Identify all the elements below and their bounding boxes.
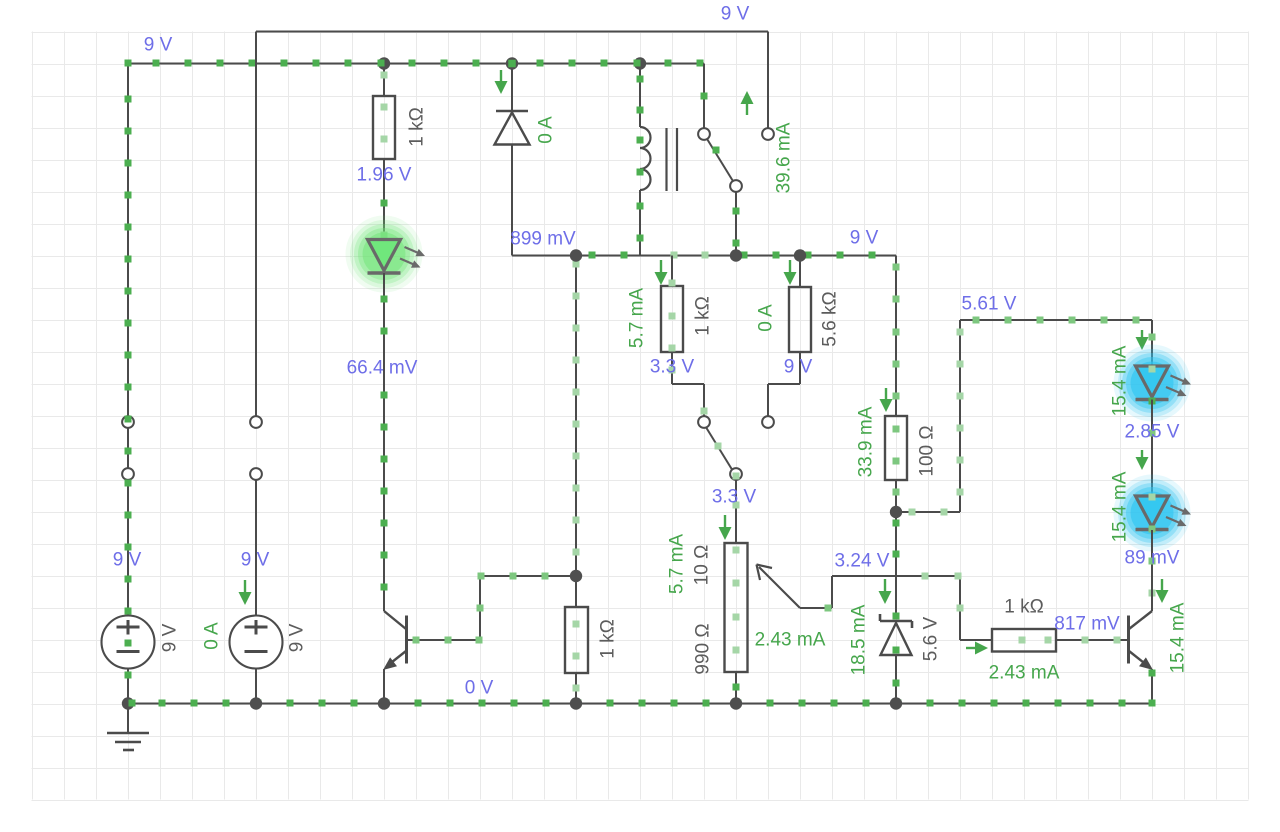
switch S1 (closed) in V1 branch: [122, 416, 134, 481]
junction (384,704): [378, 697, 390, 709]
junction (512,64): [506, 57, 518, 69]
value R4 1kΩ: [598, 619, 619, 659]
relay K1 core: [667, 128, 678, 191]
wire: diode bottom to node 899mV (512,256)-(576,256): [512, 255, 576, 257]
value R6 100Ω: [917, 425, 938, 476]
label 1.96V: [357, 165, 412, 186]
resistor R3 5.6 kΩ (vertical at x=800): [789, 256, 811, 353]
wire: between LEDs (2.85V net): [1149, 400, 1156, 497]
svg-text:10 Ω: 10 Ω: [692, 545, 713, 586]
relay K1 coil (x=640): [637, 64, 651, 256]
svg-text:2.85 V: 2.85 V: [1125, 422, 1180, 443]
label 817mV: [1054, 614, 1120, 635]
wire: LED D4 to Q2 collector (89 mV net): [1149, 530, 1156, 597]
switch S3 (SPDT, selecting left throw): [698, 416, 774, 480]
wire: LED D2 to Q1 collector (66.4 mV net): [381, 273, 388, 611]
label 89mV: [1125, 548, 1180, 569]
label 18.5mA: [849, 604, 870, 675]
label 2.85V: [1125, 422, 1180, 443]
svg-text:9 V: 9 V: [113, 550, 142, 571]
svg-text:9 V: 9 V: [850, 228, 879, 249]
value R5 1kΩ: [1004, 597, 1044, 618]
wire: Q1 base path to node (576,576): [407, 573, 577, 644]
wire: top net 9V (256,31)-(768,31) with drop to relay throw B: [256, 32, 768, 129]
current arrow 0 A at R3: [784, 260, 797, 285]
label 899mV: [510, 229, 576, 250]
wire: V1 upper lead: [125, 480, 132, 617]
svg-text:18.5 mA: 18.5 mA: [849, 604, 870, 675]
current arrow 0 A at switch S2: [239, 580, 252, 605]
value V1 9V: [160, 623, 181, 652]
current arrow 39.6 mA at relay switch: [741, 91, 754, 115]
svg-text:3.3 V: 3.3 V: [712, 487, 757, 508]
junction (576,256): [570, 249, 582, 261]
svg-text:5.61 V: 5.61 V: [962, 294, 1017, 315]
label 5.61V: [962, 294, 1017, 315]
wire: mid rail 9V (576,256)-(896,256): [576, 252, 896, 259]
svg-text:5.7 mA: 5.7 mA: [667, 534, 688, 595]
label 5.7mA at VR1: [667, 534, 688, 595]
wire: battery V2 branch x=256 (crosses rail, no junction): [255, 32, 257, 704]
label 2.43mA at VR1: [755, 630, 826, 651]
junction (128,704): [122, 697, 134, 709]
battery V2 (9 V): [230, 616, 283, 669]
svg-text:15.4 mA: 15.4 mA: [1168, 602, 1189, 673]
svg-text:0 A: 0 A: [536, 116, 557, 144]
wire: R2 to switch S3 throw A: [669, 352, 708, 416]
transistor Q2 (NPN, base left): [1129, 576, 1156, 704]
label 9V top: [721, 4, 750, 25]
wire: V1 lower lead: [125, 668, 132, 704]
resistor R5 1 kΩ (horizontal at y=640): [992, 629, 1127, 652]
label 15.4mA at Q2: [1168, 602, 1189, 673]
LED D3 (blue, lit): [1114, 345, 1192, 422]
svg-text:3.3 V: 3.3 V: [650, 357, 695, 378]
junction (256,704): [250, 697, 262, 709]
current arrow 0 A at diode D1: [495, 70, 508, 94]
svg-text:0 A: 0 A: [756, 304, 777, 332]
svg-text:100 Ω: 100 Ω: [917, 425, 938, 476]
svg-text:1 kΩ: 1 kΩ: [1004, 597, 1044, 618]
wire: x=576 vertical (899mV net to Q1 base node): [573, 256, 580, 577]
ground: [107, 704, 149, 751]
label 0V: [465, 678, 494, 699]
svg-text:9 V: 9 V: [721, 4, 750, 25]
svg-text:0 A: 0 A: [202, 622, 223, 650]
junction (896,512): [890, 506, 902, 518]
resistor R1 1 kΩ (vertical at x=384): [373, 64, 395, 160]
transistor Q1 (NPN, mirrored, base right): [383, 611, 407, 704]
junction (384,64): [378, 57, 390, 69]
wire: R1 to LED D2: [381, 159, 388, 240]
junction (576,576): [570, 570, 582, 582]
wire: LED chain drop x=1152: [1149, 320, 1156, 366]
current arrow 5.7 mA at potentiometer: [719, 515, 732, 540]
svg-text:3.24 V: 3.24 V: [835, 551, 890, 572]
svg-text:9 V: 9 V: [241, 550, 270, 571]
current arrow 5.7 mA at R2: [655, 260, 668, 285]
current arrow 15.4 mA at Q2 emitter: [1156, 579, 1169, 603]
svg-text:9 V: 9 V: [160, 623, 181, 652]
svg-text:9 V: 9 V: [144, 35, 173, 56]
label 9V at V2: [241, 550, 270, 571]
svg-text:1 kΩ: 1 kΩ: [693, 296, 714, 336]
label 33.9mA: [856, 406, 877, 477]
svg-text:66.4 mV: 66.4 mV: [347, 358, 418, 379]
label 0A at D1: [536, 116, 557, 144]
switch S2 (open) in V2 branch: [250, 416, 262, 480]
wire: wiper net 3.24V to R5 and Q2 base: [800, 573, 992, 641]
svg-text:9 V: 9 V: [784, 357, 813, 378]
svg-text:9 V: 9 V: [287, 623, 308, 652]
wire: 9V rail to R6 100Ω (x=896): [893, 256, 900, 417]
svg-text:5.6 kΩ: 5.6 kΩ: [820, 291, 841, 346]
wire: node 5.61V (896,512)-(960,512)-(960,320)-(1152,320): [896, 317, 1152, 516]
wire: left branch x=128 from rail to switch S1: [125, 60, 132, 417]
label 15.4mA at D3: [1110, 345, 1131, 416]
svg-text:39.6 mA: 39.6 mA: [774, 122, 795, 193]
battery V1 (9 V): [102, 616, 155, 669]
wire: R3 to switch S3 throw B: [768, 352, 800, 416]
label 5.7mA at R2: [627, 288, 648, 349]
value R2 1kΩ: [693, 296, 714, 336]
junction (736,256): [730, 249, 742, 261]
svg-text:817 mV: 817 mV: [1054, 614, 1120, 635]
svg-text:1 kΩ: 1 kΩ: [598, 619, 619, 659]
svg-text:1 kΩ: 1 kΩ: [407, 107, 428, 147]
junction (736,704): [730, 697, 742, 709]
label 3.3V: [650, 357, 695, 378]
svg-text:15.4 mA: 15.4 mA: [1110, 471, 1131, 542]
junction (800,256): [794, 249, 806, 261]
svg-text:2.43 mA: 2.43 mA: [755, 630, 826, 651]
svg-text:990 Ω: 990 Ω: [693, 623, 714, 674]
junction (640,64): [634, 57, 646, 69]
value VR1 990Ω: [693, 623, 714, 674]
svg-text:89 mV: 89 mV: [1125, 548, 1180, 569]
label 9V top-left: [144, 35, 173, 56]
label 9V at V1: [113, 550, 142, 571]
label 39.6mA: [774, 122, 795, 193]
svg-text:5.7 mA: 5.7 mA: [627, 288, 648, 349]
value R3 5.6kΩ: [820, 291, 841, 346]
value VR1 10Ω: [692, 545, 713, 586]
wire: current dots over junctions: [129, 60, 641, 707]
svg-text:1.96 V: 1.96 V: [357, 165, 412, 186]
svg-text:33.9 mA: 33.9 mA: [856, 406, 877, 477]
resistor R4 1 kΩ (vertical at x=576): [565, 576, 588, 704]
label 15.4mA at D4: [1110, 471, 1131, 542]
current arrow 15.4 mA at LED D4: [1136, 450, 1149, 470]
current arrow 2.43 mA at R5: [966, 642, 988, 655]
label 2.43mA at R5: [989, 663, 1060, 684]
label 9V mid-rail: [850, 228, 879, 249]
current arrow 15.4 mA at LED D3: [1136, 330, 1149, 350]
svg-text:15.4 mA: 15.4 mA: [1110, 345, 1131, 416]
potentiometer VR1 (10Ω / 990Ω): [725, 512, 801, 704]
resistor R6 100 Ω (vertical at x=896): [885, 416, 907, 512]
current arrow 33.9 mA at R6: [880, 388, 893, 412]
wire: top rail 9V (128,64)-(704,64): [127, 60, 704, 67]
svg-text:899 mV: 899 mV: [510, 229, 576, 250]
relay K1 switch (common 736, throws 704/768): [698, 64, 774, 256]
junction (896,704): [890, 697, 902, 709]
value V2 9V: [287, 623, 308, 652]
diode D1 (x=512, pointing up): [495, 64, 530, 256]
resistor R2 1 kΩ (vertical at x=672): [661, 256, 683, 353]
wire: S3 common to potentiometer: [733, 473, 740, 513]
label 9V at R3: [784, 357, 813, 378]
value R1 1kΩ: [407, 107, 428, 147]
svg-text:0 V: 0 V: [465, 678, 494, 699]
svg-text:5.6 V: 5.6 V: [921, 616, 942, 661]
label 0A at R3: [756, 304, 777, 332]
LED D2 (green, lit): [346, 216, 426, 293]
label 66.4mV: [347, 358, 418, 379]
label 3.24V: [835, 551, 890, 572]
current arrow 18.5 mA at zener Z1: [879, 579, 892, 604]
value Z1 5.6V: [921, 616, 942, 661]
LED D4 (blue, lit): [1114, 475, 1192, 552]
wire: zener branch (896,512)-(896,619): [893, 512, 900, 620]
zener diode Z1 5.6 V (x=896): [880, 614, 912, 704]
label 0A at V2: [202, 622, 223, 650]
junction (576,704): [570, 697, 582, 709]
wire: bottom rail 0V (128,704)-(1152,704): [128, 700, 1156, 707]
svg-text:2.43 mA: 2.43 mA: [989, 663, 1060, 684]
label 3.3V at S3: [712, 487, 757, 508]
